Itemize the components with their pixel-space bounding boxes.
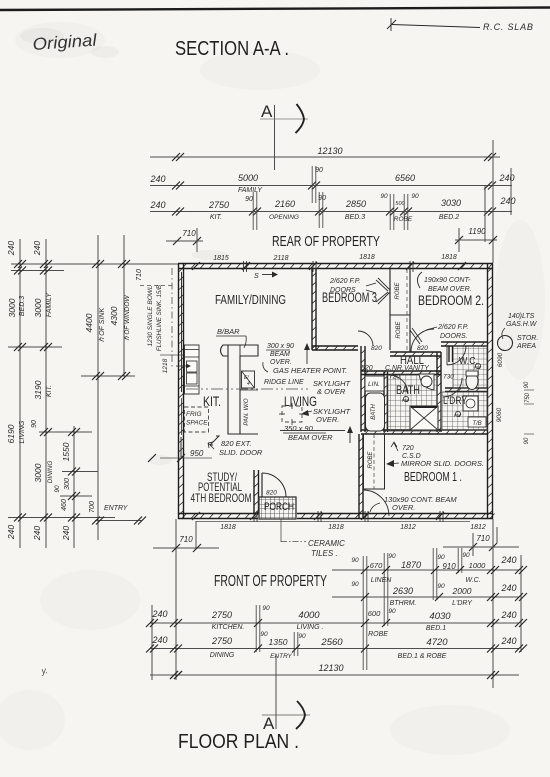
svg-text:1350: 1350	[269, 637, 288, 647]
svg-text:240: 240	[149, 174, 165, 184]
left dim ticks	[14, 260, 22, 268]
svg-text:OPENING: OPENING	[269, 214, 299, 221]
bottom rows right sub-block	[332, 569, 519, 571]
svg-text:ENTRY: ENTRY	[104, 505, 129, 512]
svg-text:2630: 2630	[392, 586, 413, 596]
svg-text:DOORS: DOORS	[330, 287, 356, 294]
svg-text:4000: 4000	[298, 610, 320, 621]
floor waste fw wc	[475, 363, 480, 368]
svg-text:BEAM OVER: BEAM OVER	[288, 433, 333, 442]
svg-text:90: 90	[524, 437, 530, 444]
svg-text:BEDROOM 2.: BEDROOM 2.	[418, 293, 484, 308]
svg-text:BED.3: BED.3	[345, 214, 365, 221]
dim 710 top left	[166, 240, 203, 242]
dim 710 bottom right	[443, 546, 519, 548]
svg-text:2000: 2000	[452, 586, 472, 596]
svg-text:LINEN: LINEN	[371, 577, 393, 584]
outer wall right	[487, 264, 489, 520]
dim line row3 top	[150, 211, 512, 213]
svg-text:1818: 1818	[441, 254, 457, 261]
svg-text:90: 90	[298, 633, 306, 640]
svg-text:MIRROR SLID. DOORS.: MIRROR SLID. DOORS.	[401, 459, 484, 468]
svg-text:6190: 6190	[6, 424, 16, 443]
wc door arc	[447, 346, 466, 365]
svg-text:KIT.: KIT.	[203, 394, 221, 409]
sink arrow	[176, 365, 190, 367]
svg-text:4400: 4400	[84, 313, 94, 332]
svg-text:12130: 12130	[318, 663, 343, 673]
svg-text:2/620 F.P.: 2/620 F.P.	[437, 324, 469, 331]
svg-text:240: 240	[500, 610, 516, 620]
svg-text:240: 240	[32, 526, 42, 541]
wall segment ticks bottom	[192, 512, 200, 520]
sink centreline	[171, 268, 173, 368]
svg-text:BED.1: BED.1	[426, 625, 446, 632]
left dim column lines	[19, 239, 21, 548]
svg-text:910: 910	[442, 562, 456, 571]
svg-text:140)LTS: 140)LTS	[508, 313, 535, 320]
svg-text:240: 240	[499, 196, 515, 206]
svg-text:3030: 3030	[441, 198, 461, 208]
svg-text:1550: 1550	[61, 442, 71, 461]
svg-text:FRIG: FRIG	[186, 411, 202, 418]
wc / ldry wall	[445, 387, 487, 389]
svg-text:1815: 1815	[213, 255, 229, 262]
svg-text:90: 90	[245, 196, 253, 203]
svg-text:ROBE: ROBE	[394, 216, 413, 223]
svg-text:4030: 4030	[429, 611, 451, 622]
svg-text:ROBE: ROBE	[368, 451, 374, 469]
wc floor tiles	[453, 346, 487, 388]
svg-text:2560: 2560	[320, 637, 343, 648]
left dim rows	[11, 263, 178, 265]
svg-text:3000: 3000	[7, 298, 17, 317]
svg-text:BATH: BATH	[371, 404, 377, 420]
svg-text:KIT.: KIT.	[210, 214, 222, 221]
wc top wall	[441, 341, 487, 343]
ldry door arc	[443, 378, 462, 397]
bed1 top wall	[361, 429, 487, 431]
svg-text:AREA: AREA	[516, 343, 536, 350]
svg-text:2750: 2750	[208, 200, 229, 210]
svg-text:SLID. DOOR: SLID. DOOR	[219, 448, 263, 457]
svg-text:460: 460	[61, 499, 68, 511]
svg-text:240: 240	[149, 200, 165, 210]
svg-text:90: 90	[31, 420, 38, 428]
bed2 robe strip	[390, 314, 410, 316]
svg-text:L'DRY: L'DRY	[452, 600, 473, 607]
svg-text:820: 820	[417, 345, 428, 352]
svg-text:FAMILY: FAMILY	[238, 187, 263, 194]
svg-text:REAR OF PROPERTY: REAR OF PROPERTY	[272, 233, 380, 250]
svg-text:1818: 1818	[328, 524, 344, 531]
lin bath divider wall	[383, 372, 385, 432]
svg-text:KITCHEN.: KITCHEN.	[212, 624, 245, 631]
hall / bath block left wall	[360, 346, 362, 432]
svg-text:90: 90	[380, 193, 388, 200]
svg-text:LIVING: LIVING	[19, 420, 26, 444]
svg-text:FAMILY/DINING: FAMILY/DINING	[215, 292, 286, 307]
bottom right extension lines	[492, 519, 494, 688]
svg-text:90: 90	[462, 552, 470, 559]
svg-text:240: 240	[6, 241, 16, 256]
svg-text:TILES .: TILES .	[311, 549, 338, 558]
svg-text:OVER.: OVER.	[392, 503, 415, 512]
svg-text:GAS HEATER POINT.: GAS HEATER POINT.	[273, 366, 347, 375]
svg-text:6090: 6090	[497, 352, 504, 367]
svg-text:LIN.: LIN.	[368, 381, 380, 388]
bath / ldry wall	[436, 352, 438, 432]
svg-text:1218: 1218	[162, 358, 169, 373]
svg-text:& OVER: & OVER	[317, 387, 346, 396]
svg-text:3190: 3190	[33, 380, 43, 399]
svg-text:BEDROOM 1 .: BEDROOM 1 .	[404, 470, 462, 484]
corner vanity	[419, 374, 434, 390]
svg-text:BATH: BATH	[396, 383, 420, 397]
svg-text:240: 240	[498, 173, 514, 183]
svg-text:820 EXT.: 820 EXT.	[221, 439, 252, 448]
section arrow bottom	[296, 701, 305, 729]
bed1 left wall	[358, 434, 360, 519]
svg-text:B/BAR: B/BAR	[217, 327, 240, 336]
bottom left extension lines	[175, 519, 177, 680]
bottom row kitchen living bed1	[150, 622, 519, 624]
svg-text:1818: 1818	[220, 524, 236, 531]
svg-text:90: 90	[437, 554, 445, 561]
svg-text:700: 700	[89, 501, 96, 513]
bedroom2 / hall wall	[390, 351, 441, 353]
shower	[410, 406, 438, 430]
bed2 door arc	[411, 329, 434, 352]
svg-text:240: 240	[500, 636, 516, 646]
outer wall top	[178, 263, 493, 265]
kitchen sink	[187, 361, 198, 372]
gas hws circle	[498, 336, 513, 351]
outer wall left	[178, 264, 180, 520]
extension lines top right	[492, 140, 494, 263]
svg-text:LIVING .: LIVING .	[297, 624, 324, 631]
svg-text:90: 90	[524, 381, 530, 388]
svg-text:90: 90	[351, 581, 359, 588]
svg-text:6560: 6560	[395, 173, 415, 183]
section arrow top	[296, 104, 305, 133]
beam arrow up	[306, 346, 308, 364]
outer wall bottom left part	[178, 513, 258, 515]
wall boundary marks top	[243, 261, 245, 272]
svg-text:730: 730	[443, 374, 454, 381]
svg-text:ℏ OF WINDOW: ℏ OF WINDOW	[124, 295, 131, 341]
wall boundary marks bottom	[253, 511, 255, 522]
dim line 12130 top	[150, 156, 500, 158]
svg-text:L'DRY: L'DRY	[443, 395, 468, 407]
svg-text:4TH BEDROOM: 4TH BEDROOM	[191, 491, 252, 505]
svg-text:1870: 1870	[401, 560, 421, 570]
svg-text:300: 300	[64, 478, 71, 490]
bath floor tiles	[387, 375, 437, 431]
svg-text:OVER.: OVER.	[270, 359, 292, 366]
svg-text:720: 720	[402, 445, 414, 452]
svg-text:FRONT OF PROPERTY: FRONT OF PROPERTY	[214, 573, 327, 590]
svg-text:4300: 4300	[109, 306, 119, 325]
svg-text:820: 820	[266, 490, 277, 497]
svg-text:1190: 1190	[468, 227, 486, 236]
dim line row2 top	[150, 185, 512, 187]
ceramic tiles leader	[280, 519, 282, 542]
bath door arc	[389, 375, 408, 394]
svg-text:1812: 1812	[400, 524, 416, 531]
svg-text:670: 670	[370, 561, 383, 570]
svg-text:STOR.: STOR.	[517, 335, 538, 342]
svg-text:4: 4	[247, 381, 250, 387]
bed1 robe	[364, 434, 385, 489]
kitchen island bench	[221, 345, 259, 434]
svg-text:2160: 2160	[274, 199, 295, 209]
svg-text:240: 240	[151, 609, 167, 619]
svg-text:90: 90	[388, 608, 396, 615]
outer wall bottom right part	[297, 513, 493, 515]
svg-text:SECTION A-A .: SECTION A-A .	[175, 38, 289, 60]
svg-text:KIT.: KIT.	[46, 385, 53, 397]
svg-text:BED.3: BED.3	[19, 296, 26, 316]
svg-text:1818: 1818	[359, 254, 375, 261]
svg-text:12130: 12130	[317, 146, 342, 156]
svg-text:FLOOR PLAN .: FLOOR PLAN .	[178, 730, 299, 753]
svg-text:240: 240	[32, 241, 42, 256]
svg-text:710: 710	[476, 534, 490, 543]
svg-text:90: 90	[318, 195, 326, 202]
svg-text:C.NR.VANITY: C.NR.VANITY	[385, 365, 430, 372]
svg-text:BED.1 & ROBE: BED.1 & ROBE	[398, 653, 447, 660]
bottom line 12130	[150, 674, 519, 676]
svg-text:R.C. SLAB: R.C. SLAB	[483, 22, 534, 32]
bath tub	[366, 393, 385, 431]
svg-text:ROBE: ROBE	[395, 282, 401, 300]
svg-text:ROBE: ROBE	[396, 321, 402, 339]
dim 710 bottom left	[153, 547, 219, 549]
svg-text:240: 240	[500, 583, 516, 593]
R.C. SLAB callout line	[392, 25, 480, 28]
svg-text:DOORS.: DOORS.	[440, 333, 468, 340]
svg-text:BTHRM.: BTHRM.	[390, 600, 417, 607]
svg-text:240: 240	[61, 526, 71, 541]
bed3 robe bifold doors	[378, 278, 390, 290]
svg-text:W.C.: W.C.	[459, 355, 478, 367]
ext sliding door symbol	[180, 437, 182, 457]
svg-text:710: 710	[136, 269, 143, 281]
svg-text:FLUSHLINE SINK. 15/B: FLUSHLINE SINK. 15/B	[156, 285, 163, 351]
wc left wall stub	[448, 346, 450, 362]
svg-text:500: 500	[395, 201, 405, 207]
svg-text:820: 820	[371, 345, 382, 352]
svg-text:710: 710	[179, 535, 193, 544]
svg-text:FW: FW	[454, 413, 462, 418]
svg-text:OVER.: OVER.	[316, 415, 339, 424]
svg-text:3000: 3000	[33, 463, 43, 482]
entry door	[261, 473, 263, 497]
svg-text:ℏ OF SINK: ℏ OF SINK	[98, 308, 106, 343]
svg-text:ENTRY: ENTRY	[270, 653, 292, 660]
porch floor	[259, 497, 296, 519]
pantry wall oven	[240, 389, 258, 391]
bedroom3 left wall	[311, 269, 313, 350]
svg-text:SPACE: SPACE	[186, 420, 208, 427]
svg-text:600: 600	[368, 609, 381, 618]
svg-text:2750: 2750	[211, 636, 232, 646]
svg-text:90: 90	[315, 167, 323, 174]
svg-text:90: 90	[437, 583, 445, 590]
svg-text:2118: 2118	[272, 255, 288, 262]
bottom row dining entry	[150, 648, 519, 650]
bath block top wall	[361, 370, 441, 372]
svg-text:2750: 2750	[211, 610, 232, 620]
svg-text:FW: FW	[402, 398, 410, 403]
svg-text:90: 90	[388, 553, 396, 560]
study right wall	[253, 470, 255, 514]
laundry tub	[463, 396, 478, 411]
window glazing left wall	[181, 272, 183, 392]
floor waste fw ldry	[455, 411, 460, 416]
bottom block ticks	[487, 566, 495, 574]
fridge space dashed	[185, 407, 209, 432]
svg-text:PORCH: PORCH	[264, 501, 294, 513]
svg-text:A: A	[261, 102, 273, 121]
svg-text:300 x 90: 300 x 90	[267, 343, 294, 350]
svg-text:2850: 2850	[345, 199, 366, 209]
svg-text:90: 90	[260, 631, 268, 638]
svg-text:520: 520	[361, 365, 373, 372]
svg-text:W.C.: W.C.	[465, 577, 480, 584]
svg-text:PAN. W/O: PAN. W/O	[244, 398, 250, 426]
svg-text:3000: 3000	[33, 298, 43, 317]
svg-text:190x90 CONT-: 190x90 CONT-	[424, 277, 471, 284]
floor waste fw bath	[403, 396, 408, 401]
wc pan	[466, 373, 478, 390]
svg-text:710: 710	[182, 229, 196, 238]
kitchen bench left wall	[185, 345, 200, 394]
dim 1190	[455, 239, 497, 241]
cooktop	[242, 371, 255, 388]
bed1 robe door arc	[363, 490, 389, 516]
svg-text:BEAM OVER.: BEAM OVER.	[428, 286, 472, 293]
svg-text:BEAM: BEAM	[270, 351, 290, 358]
svg-text:DINING: DINING	[47, 461, 54, 484]
svg-text:T/B: T/B	[472, 421, 481, 427]
svg-text:90: 90	[54, 485, 61, 493]
section marker A bottom	[275, 656, 277, 729]
svg-text:ROBE: ROBE	[368, 631, 388, 638]
svg-text:1000: 1000	[469, 561, 487, 570]
svg-text:90: 90	[411, 193, 419, 200]
svg-text:240: 240	[6, 525, 16, 540]
svg-text:90: 90	[351, 557, 359, 564]
svg-text:750: 750	[525, 392, 531, 403]
skylight dashed square	[282, 406, 302, 422]
linen cupboard	[365, 376, 384, 391]
bottom block wall pairs	[362, 556, 364, 670]
svg-text:RIDGE LINE: RIDGE LINE	[264, 379, 304, 386]
svg-text:2/620 F.P.: 2/620 F.P.	[329, 278, 361, 285]
svg-text:DINING: DINING	[210, 652, 235, 659]
svg-text:350 x 90: 350 x 90	[284, 424, 314, 433]
bed3 door arc	[358, 331, 373, 346]
svg-text:9060: 9060	[496, 407, 503, 422]
svg-text:240: 240	[151, 635, 167, 645]
robe walls between bed3 and bed2	[389, 269, 391, 350]
svg-text:BED.2: BED.2	[439, 214, 459, 221]
ridge line	[186, 388, 308, 390]
svg-text:240: 240	[500, 555, 516, 565]
svg-text:5000: 5000	[238, 173, 258, 183]
svg-text:950: 950	[190, 449, 204, 458]
svg-text:S: S	[254, 273, 259, 280]
svg-text:1230 SINGLE BOWL: 1230 SINGLE BOWL	[147, 285, 154, 346]
bedroom3 / hall wall	[312, 345, 358, 347]
scan edge top	[0, 8, 550, 11]
svg-text:90: 90	[262, 605, 270, 612]
svg-text:GAS.H.W: GAS.H.W	[506, 321, 538, 328]
laundry tub label T/B	[468, 417, 486, 427]
wall segment ticks top	[192, 262, 200, 270]
svg-text:720: 720	[389, 374, 400, 381]
svg-text:1812: 1812	[470, 524, 486, 531]
svg-text:FAMILY: FAMILY	[46, 292, 53, 317]
svg-text:4720: 4720	[426, 637, 448, 648]
laundry floor tiles	[441, 392, 487, 430]
svg-text:CERAMIC: CERAMIC	[308, 539, 345, 548]
